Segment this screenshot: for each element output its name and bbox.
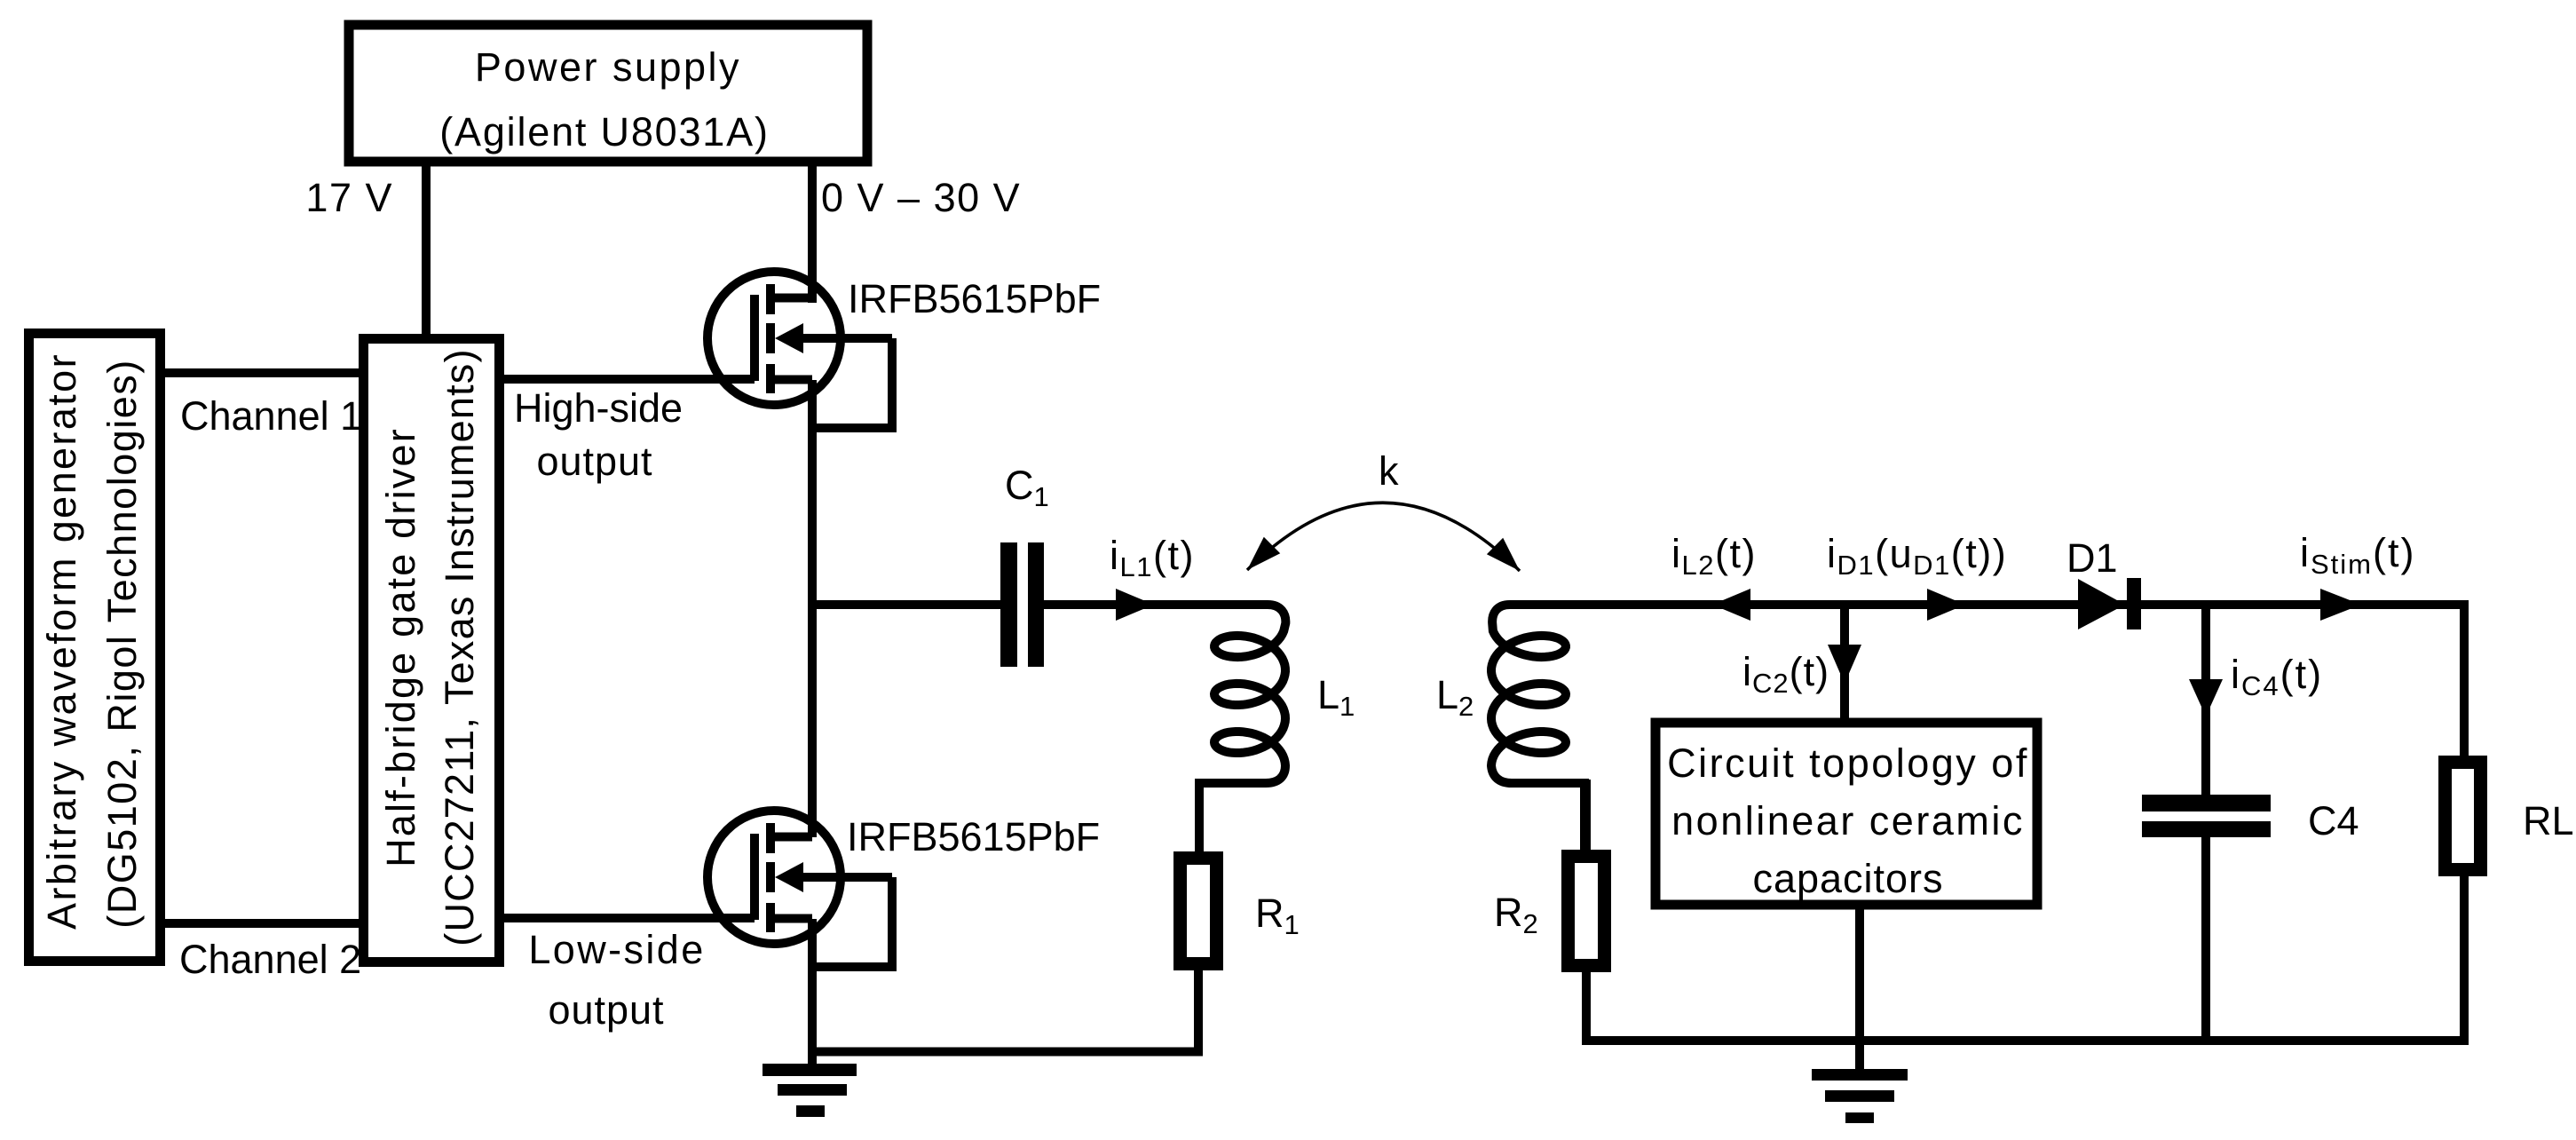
source arrow <box>775 862 803 892</box>
svg-text:k: k <box>1379 448 1399 494</box>
wire mid rail to C1 <box>812 600 1000 609</box>
channel dashes <box>766 823 775 932</box>
arrow iL1 <box>1116 589 1154 621</box>
svg-text:High-side: High-side <box>514 385 683 431</box>
arrow iStim <box>2320 589 2361 621</box>
wire junction to nonlinear capacitor box <box>1840 605 1849 723</box>
wire 17V supply to gate driver <box>422 162 431 338</box>
svg-text:Low-side: Low-side <box>528 927 705 972</box>
svg-text:IRFB5615PbF: IRFB5615PbF <box>847 814 1100 859</box>
wire Q2 source to ground <box>808 919 817 1064</box>
wire junction to C4 <box>2201 605 2210 795</box>
circuit topology box <box>1655 723 2037 905</box>
transistor body circle <box>707 272 841 405</box>
resistor RL <box>2446 763 2481 870</box>
resistor R2 <box>1569 857 1605 966</box>
diode D1 <box>2078 579 2125 629</box>
wire right bottom return <box>1582 1036 2469 1041</box>
body connection <box>808 877 892 967</box>
arrow iC2 <box>1828 645 1861 684</box>
gate line <box>750 295 759 381</box>
svg-text:Circuit topology of: Circuit topology of <box>1667 740 2029 786</box>
wire channel 2 <box>165 919 359 928</box>
arbitrary waveform generator box <box>29 334 161 962</box>
transistor Q2 IRFB5615PbF (low-side) <box>707 811 892 967</box>
svg-text:Power supply: Power supply <box>475 44 741 90</box>
svg-text:Channel 2: Channel 2 <box>179 937 361 982</box>
source arrow <box>775 323 803 353</box>
svg-text:IRFB5615PbF: IRFB5615PbF <box>848 276 1101 321</box>
transistor Q1 IRFB5615PbF (high-side) <box>707 272 892 428</box>
svg-text:Channel 1: Channel 1 <box>180 393 362 439</box>
svg-text:0 V – 30 V: 0 V – 30 V <box>821 175 1021 220</box>
inductor L1 <box>1044 605 1285 851</box>
half-bridge gate driver box <box>364 339 500 962</box>
wire box to ground <box>1855 905 1864 1069</box>
arrow iD1 <box>1927 589 1965 621</box>
power supply box (Agilent U8031A) <box>349 25 867 162</box>
svg-text:capacitors: capacitors <box>1752 856 1943 901</box>
svg-text:17 V: 17 V <box>305 175 393 220</box>
svg-text:Arbitrary waveform generator: Arbitrary waveform generator <box>39 352 84 930</box>
wire C4 to bottom return <box>2201 837 2210 1045</box>
ground (left) <box>763 1064 857 1117</box>
inductor L2 + top wire to RL corner <box>1491 605 2464 850</box>
ground (right) <box>1812 1069 1908 1123</box>
transistor body circle <box>707 811 841 944</box>
wire left bottom return <box>808 1047 1203 1052</box>
gate line <box>750 834 759 920</box>
wire R1 to bottom return <box>1194 970 1203 1048</box>
source tap <box>770 914 812 923</box>
svg-text:(DG5102, Rigol Technologies): (DG5102, Rigol Technologies) <box>99 359 145 929</box>
wire RL to bottom return <box>2460 869 2469 1045</box>
arrow iC4 <box>2189 679 2223 716</box>
wire Q1 source down to Q2 drain (mid rail) <box>808 380 817 837</box>
drain tap <box>770 294 812 303</box>
wire top right corner down to RL <box>2460 600 2469 762</box>
svg-text:(UCC27211, Texas Instruments): (UCC27211, Texas Instruments) <box>437 348 482 946</box>
wire channel 1 <box>165 368 359 377</box>
svg-text:Half-bridge gate driver: Half-bridge gate driver <box>378 427 423 867</box>
drain tap <box>770 833 812 842</box>
wire L2 to R2 <box>1582 780 1591 856</box>
arrow iL2 (pointing left) <box>1712 589 1750 621</box>
wire low-side output to Q2 gate <box>504 914 755 922</box>
wire 0V-30V supply to Q1 drain <box>808 162 817 303</box>
channel dashes <box>766 284 775 393</box>
capacitor C4 <box>2142 795 2271 811</box>
svg-text:output: output <box>536 439 652 484</box>
wire R2 to bottom return <box>1582 966 1591 1045</box>
body connection <box>808 338 892 428</box>
svg-text:output: output <box>548 987 664 1033</box>
svg-text:C4: C4 <box>2308 798 2359 843</box>
svg-text:(Agilent U8031A): (Agilent U8031A) <box>439 109 770 154</box>
wire high-side output to Q1 gate <box>504 375 755 384</box>
resistor R1 <box>1181 859 1217 964</box>
svg-text:nonlinear ceramic: nonlinear ceramic <box>1671 798 2025 843</box>
svg-text:D1: D1 <box>2066 535 2118 581</box>
svg-text:RL: RL <box>2523 798 2574 843</box>
coupling coefficient k arc <box>1247 503 1520 571</box>
source tap <box>770 376 812 384</box>
capacitor C1 <box>1000 542 1017 667</box>
